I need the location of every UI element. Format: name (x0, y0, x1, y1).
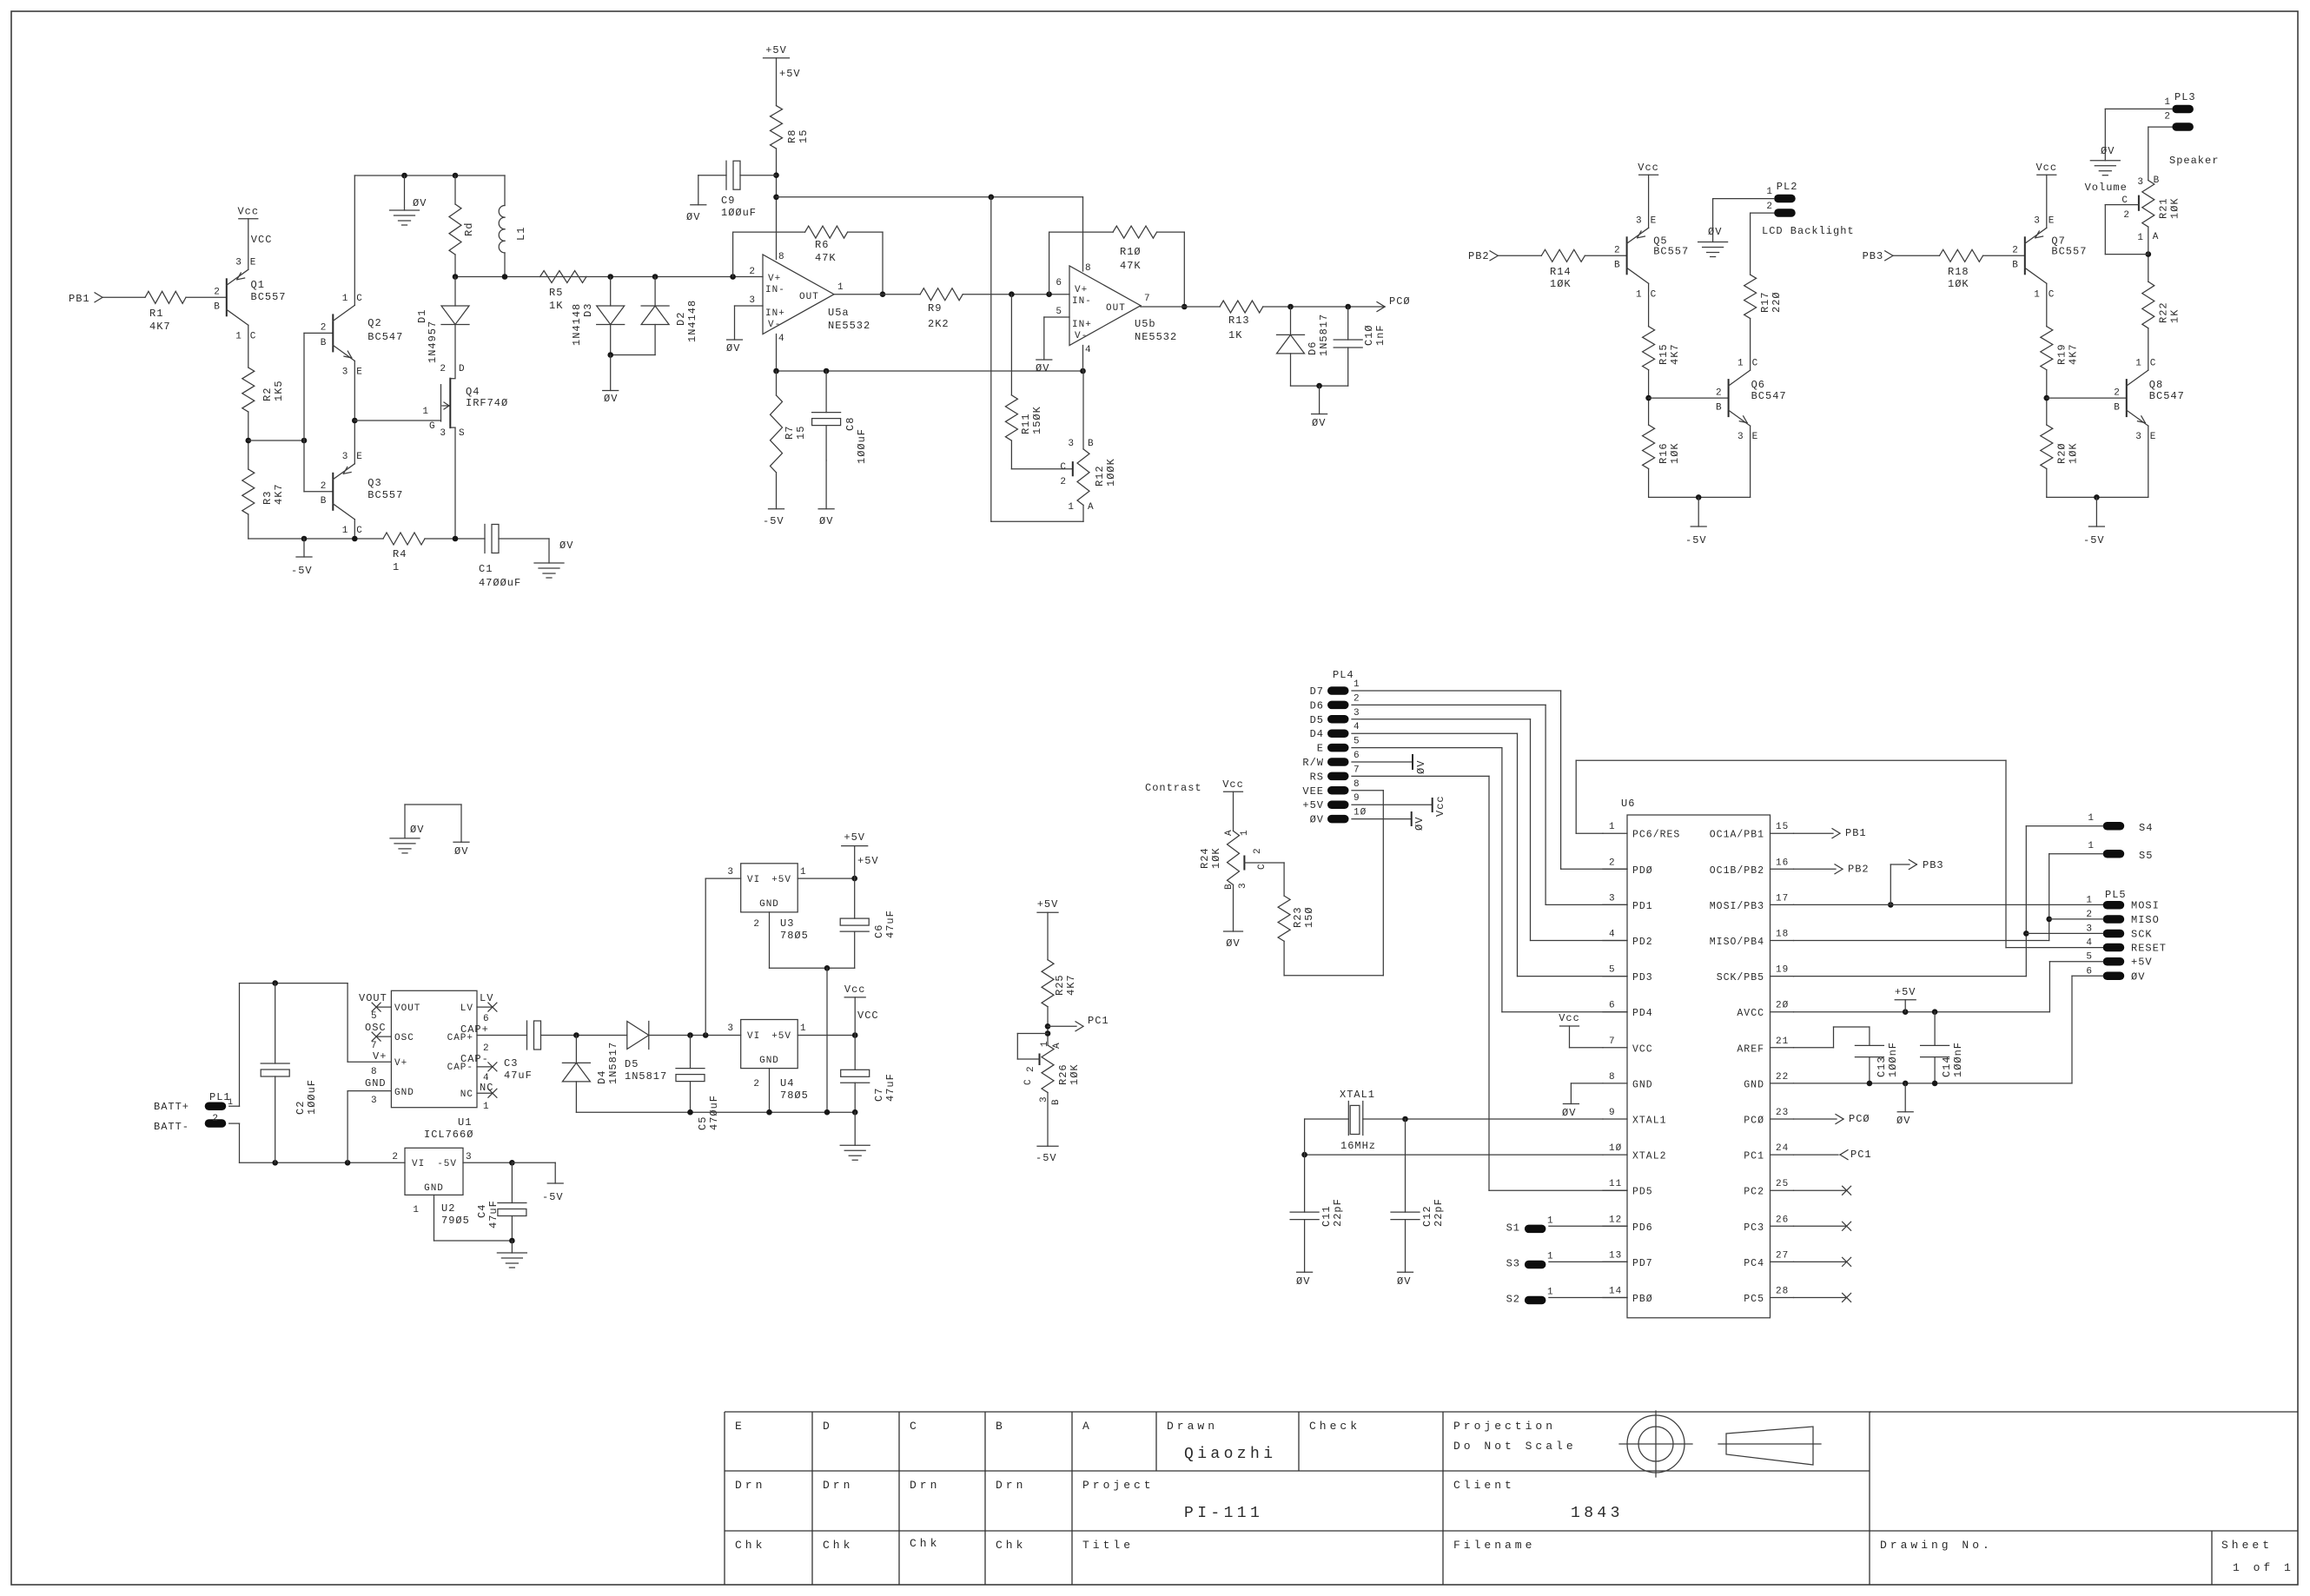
svg-text:D4: D4 (1310, 728, 1324, 740)
svg-text:9: 9 (1354, 793, 1360, 804)
wire D6/C10 bottom (1291, 383, 1348, 389)
svg-text:BC557: BC557 (367, 489, 403, 501)
svg-text:1: 1 (235, 331, 242, 341)
svg-text:V+: V+ (1075, 285, 1088, 295)
svg-text:S3: S3 (1506, 1257, 1520, 1269)
svg-text:PD7: PD7 (1632, 1258, 1653, 1269)
svg-text:2K2: 2K2 (928, 318, 950, 330)
transistor Q8 (2114, 359, 2185, 443)
resistor R8 (771, 106, 811, 149)
svg-text:GND: GND (365, 1077, 387, 1089)
svg-text:U4: U4 (780, 1077, 794, 1089)
svg-text:D5: D5 (625, 1058, 639, 1070)
svg-text:PL3: PL3 (2174, 91, 2196, 103)
svg-text:MISO/PB4: MISO/PB4 (1710, 937, 1764, 948)
svg-text:S: S (459, 428, 466, 439)
wire R26 to -5V (1036, 1093, 1058, 1165)
svg-text:D4: D4 (596, 1070, 608, 1084)
wire Q3 collector (354, 520, 355, 539)
svg-text:3: 3 (1068, 439, 1075, 449)
capacitor C5 (676, 1036, 720, 1131)
svg-text:R22: R22 (2157, 301, 2169, 323)
resistor R5 (540, 271, 586, 313)
wire U5a pin4 (776, 334, 778, 372)
svg-text:Sheet: Sheet (2221, 1539, 2273, 1552)
svg-text:RS: RS (1310, 771, 1324, 783)
svg-text:R19: R19 (2055, 343, 2068, 365)
svg-text:22: 22 (1776, 1072, 1789, 1083)
resistor Rd (449, 175, 475, 277)
svg-text:OSC: OSC (365, 1022, 387, 1034)
svg-text:2: 2 (1026, 1065, 1036, 1072)
svg-text:2: 2 (2164, 112, 2171, 123)
potentiometer R12 (1060, 371, 1117, 513)
svg-text:-5V: -5V (437, 1159, 457, 1169)
svg-text:1ØØK: 1ØØK (1105, 458, 1117, 487)
supply bottom rail (576, 1109, 857, 1116)
svg-text:Qiaozhi: Qiaozhi (1184, 1446, 1276, 1463)
svg-text:B: B (2012, 261, 2019, 271)
svg-text:U5a: U5a (828, 307, 850, 319)
net label PB1 input flag (69, 293, 103, 305)
svg-text:+5V: +5V (857, 855, 879, 867)
svg-text:8: 8 (1085, 263, 1092, 274)
wire R21 wiper loop (2105, 205, 2148, 255)
svg-text:ØV: ØV (454, 845, 468, 858)
svg-text:PC2: PC2 (1744, 1187, 1764, 1198)
0V terminal below D3 (603, 355, 619, 406)
svg-text:C14: C14 (1941, 1056, 1953, 1077)
svg-text:A: A (1088, 502, 1095, 513)
svg-text:3: 3 (727, 1023, 734, 1034)
0V terminal U5b pin5 (1036, 360, 1052, 374)
svg-text:1ØK: 1ØK (1069, 1063, 1081, 1085)
title block Project cell (1082, 1479, 1263, 1522)
svg-text:B: B (321, 338, 328, 348)
power +5V at U3 (842, 831, 879, 878)
svg-text:PD5: PD5 (1632, 1187, 1653, 1198)
svg-text:Vcc: Vcc (2035, 162, 2057, 174)
wire PL5 0V to GND net (1935, 976, 2103, 1083)
svg-text:2: 2 (321, 481, 328, 492)
svg-text:XTAL1: XTAL1 (1632, 1116, 1667, 1127)
wire PL2 pin1 to ground (1713, 199, 1775, 242)
svg-text:ØV: ØV (1310, 814, 1324, 826)
svg-text:XTAL1: XTAL1 (1340, 1089, 1375, 1101)
svg-text:R/W: R/W (1302, 757, 1324, 769)
V- rail (773, 368, 1086, 374)
svg-text:1N5817: 1N5817 (1318, 314, 1330, 356)
ground below C7 (840, 1112, 870, 1160)
svg-text:B: B (1614, 261, 1621, 271)
0V below C12 (1397, 1272, 1413, 1288)
svg-text:IN-: IN- (1072, 296, 1092, 307)
svg-text:PD3: PD3 (1632, 972, 1653, 983)
svg-text:22Ø: 22Ø (1771, 291, 1783, 313)
svg-text:2: 2 (1609, 858, 1616, 868)
svg-text:R5: R5 (549, 287, 563, 299)
wire R21 top to PL3 pin2 (2148, 127, 2173, 180)
svg-text:B: B (1716, 403, 1723, 414)
svg-text:AREF: AREF (1737, 1043, 1764, 1055)
wire R11 to R12 wiper (1011, 440, 1072, 469)
svg-text:B: B (2154, 175, 2161, 186)
no-connect pin25 (1794, 1186, 1851, 1195)
svg-text:2: 2 (2114, 387, 2121, 398)
label BATT- (154, 1121, 189, 1133)
wire MISO pad (2049, 918, 2103, 920)
svg-text:4K7: 4K7 (1669, 343, 1681, 365)
0V terminal below D6/C10 (1312, 386, 1327, 429)
svg-text:1ØK: 1ØK (1210, 847, 1222, 869)
power Vcc at Q1 emitter (237, 206, 272, 270)
svg-text:ØV: ØV (686, 211, 700, 223)
svg-text:8: 8 (778, 252, 785, 262)
transistor Q7 (2012, 216, 2087, 301)
svg-text:R18: R18 (1948, 266, 1969, 278)
svg-text:GND: GND (759, 1056, 779, 1066)
wire pin18 MISO net (1794, 854, 2053, 941)
title block Sheet cell (2221, 1539, 2294, 1574)
svg-text:BC557: BC557 (2051, 245, 2087, 257)
svg-text:C3: C3 (504, 1057, 518, 1070)
svg-text:Vcc: Vcc (1222, 778, 1244, 791)
svg-text:+5V: +5V (1037, 898, 1059, 911)
svg-text:GND: GND (759, 899, 779, 910)
svg-text:C: C (356, 526, 363, 536)
svg-text:2: 2 (214, 288, 221, 298)
svg-text:3: 3 (440, 428, 447, 439)
projection symbol cone (1718, 1427, 1821, 1465)
ground 0V at C1 (534, 539, 573, 578)
svg-text:Volume: Volume (2085, 182, 2128, 194)
svg-text:SCK/PB5: SCK/PB5 (1717, 972, 1764, 983)
svg-text:19: 19 (1776, 965, 1789, 976)
wires PL4 data lines to U6 (1352, 691, 1627, 1012)
svg-text:ØV: ØV (413, 197, 427, 209)
svg-text:+5V: +5V (1302, 799, 1324, 811)
wire C3 to D5 (541, 1032, 627, 1038)
svg-text:1ØØuF: 1ØØuF (306, 1079, 318, 1115)
svg-text:C7: C7 (873, 1088, 885, 1102)
svg-text:22pF: 22pF (1332, 1198, 1344, 1227)
svg-text:E: E (2049, 216, 2055, 227)
wire U4 GND (769, 1069, 771, 1113)
svg-text:-5V: -5V (2083, 534, 2105, 546)
svg-text:PC4: PC4 (1744, 1258, 1764, 1269)
svg-text:V+: V+ (394, 1058, 407, 1069)
svg-text:R24: R24 (1199, 847, 1211, 869)
svg-text:1: 1 (2164, 97, 2171, 108)
svg-text:11: 11 (1609, 1179, 1622, 1189)
svg-text:S5: S5 (2139, 850, 2153, 862)
resistor R11 (1005, 395, 1043, 440)
net flag PB1 at pin15 (1794, 827, 1867, 839)
svg-text:GND: GND (1632, 1079, 1653, 1090)
svg-text:1: 1 (800, 1023, 807, 1034)
wire GND pin22 (1794, 1081, 1938, 1087)
svg-text:47uF: 47uF (884, 910, 897, 938)
svg-text:-5V: -5V (763, 515, 784, 527)
svg-text:R14: R14 (1550, 266, 1572, 278)
svg-text:1K: 1K (2168, 309, 2181, 323)
svg-text:R11: R11 (1020, 413, 1032, 434)
diode D2 (641, 277, 698, 355)
ground 0V at PL2 (1698, 226, 1728, 257)
svg-text:1: 1 (1068, 502, 1075, 513)
svg-text:PB3: PB3 (1863, 250, 1884, 262)
svg-text:18: 18 (1776, 930, 1789, 940)
feedback wire to R10 (1049, 232, 1114, 295)
svg-text:ØV: ØV (410, 824, 424, 836)
svg-text:6: 6 (2086, 966, 2093, 977)
U1 pin CAP+ (447, 1023, 490, 1054)
svg-text:2: 2 (1060, 477, 1067, 487)
svg-text:12: 12 (1609, 1215, 1622, 1225)
power +5V at R8 (764, 44, 801, 106)
svg-text:S2: S2 (1506, 1294, 1520, 1306)
svg-text:V-: V- (1075, 331, 1088, 341)
svg-text:B: B (214, 302, 221, 313)
svg-text:C12: C12 (1421, 1205, 1433, 1227)
net label PB2 input flag (1468, 250, 1498, 262)
svg-text:1843: 1843 (1571, 1505, 1624, 1522)
no-connect pin26 (1794, 1222, 1851, 1230)
svg-text:Check: Check (1309, 1420, 1360, 1433)
svg-text:1: 1 (1636, 289, 1643, 300)
svg-text:RESET: RESET (2131, 943, 2167, 955)
svg-text:R4: R4 (393, 548, 407, 560)
svg-text:-5V: -5V (542, 1191, 564, 1203)
svg-text:8: 8 (1354, 779, 1360, 790)
svg-text:2: 2 (1716, 387, 1723, 398)
resistor R17 (1744, 275, 1784, 318)
svg-text:U5b: U5b (1135, 318, 1156, 330)
op-amp U5b (1056, 263, 1177, 355)
wire BATT+ to top rail (229, 980, 347, 1106)
svg-text:1: 1 (422, 407, 429, 417)
svg-text:Filename: Filename (1453, 1539, 1535, 1552)
svg-text:D5: D5 (1310, 714, 1324, 726)
svg-text:C13: C13 (1876, 1056, 1888, 1077)
svg-text:1: 1 (393, 561, 400, 573)
title block revision letters (735, 1420, 1093, 1433)
svg-text:S1: S1 (1506, 1222, 1520, 1234)
svg-text:47uF: 47uF (504, 1070, 533, 1082)
power Vcc at U6 pin7 (1559, 1012, 1603, 1048)
svg-text:21: 21 (1776, 1036, 1789, 1047)
svg-text:B: B (996, 1420, 1006, 1433)
svg-text:PC1: PC1 (1850, 1149, 1872, 1161)
svg-text:5: 5 (1056, 307, 1062, 317)
svg-text:3: 3 (1238, 882, 1248, 889)
svg-text:1: 1 (1547, 1288, 1554, 1298)
power Vcc at R24 (1222, 778, 1244, 831)
svg-text:R1Ø: R1Ø (1120, 246, 1142, 258)
wire PL3 pin1 to ground (2105, 109, 2172, 160)
svg-text:2: 2 (1253, 847, 1263, 854)
svg-text:E: E (2150, 432, 2157, 442)
R11 tap wire (1010, 295, 1012, 395)
wire R17 to PL2 pin2 (1751, 213, 1775, 275)
wire AVCC pin20 (1794, 1009, 1938, 1015)
svg-text:C: C (1060, 462, 1067, 473)
svg-text:1: 1 (800, 867, 807, 877)
svg-text:VOUT: VOUT (359, 992, 387, 1004)
svg-text:1K: 1K (549, 300, 563, 312)
svg-text:Chk: Chk (735, 1539, 765, 1552)
svg-text:C9: C9 (721, 195, 735, 207)
svg-text:Drn: Drn (996, 1479, 1026, 1492)
svg-text:1: 1 (413, 1205, 420, 1215)
no-connect pin28 (1794, 1294, 1851, 1302)
svg-text:B: B (1088, 439, 1095, 449)
svg-text:R17: R17 (1759, 291, 1771, 313)
svg-text:C4: C4 (476, 1204, 488, 1218)
svg-text:MOSI/PB3: MOSI/PB3 (1710, 901, 1764, 912)
potentiometer R26 (1023, 1040, 1081, 1105)
svg-text:R21: R21 (2157, 197, 2169, 219)
wire R6 to output node (848, 232, 886, 297)
svg-text:Rd: Rd (463, 222, 475, 236)
svg-text:ICL766Ø: ICL766Ø (424, 1129, 473, 1141)
svg-text:47uF: 47uF (487, 1200, 500, 1228)
transistor Q1 (214, 258, 286, 342)
svg-text:PD1: PD1 (1632, 901, 1653, 912)
wire XTAL1 pin9 (1363, 1116, 1603, 1122)
wire PB2 to R14 (1498, 255, 1541, 256)
svg-text:PL4: PL4 (1333, 669, 1354, 681)
svg-text:3: 3 (342, 367, 349, 377)
wire U3 input drop (705, 878, 741, 1035)
svg-text:-5V: -5V (1685, 534, 1707, 546)
svg-text:PCØ: PCØ (1849, 1113, 1870, 1125)
wire R20 to -5V rail (2046, 469, 2048, 498)
svg-text:3: 3 (466, 1152, 473, 1162)
svg-text:4: 4 (778, 334, 785, 344)
svg-text:PB1: PB1 (69, 293, 90, 305)
svg-text:R7: R7 (784, 426, 796, 440)
svg-text:ØV: ØV (1312, 417, 1326, 429)
svg-text:IN-: IN- (765, 285, 785, 295)
feedback wire to R6 (733, 232, 805, 276)
title block Drn row (735, 1479, 1026, 1492)
svg-text:VI: VI (412, 1159, 425, 1169)
svg-text:NC: NC (460, 1089, 473, 1100)
svg-text:+5V: +5V (771, 875, 791, 885)
svg-text:V+: V+ (768, 274, 781, 284)
svg-text:4K7: 4K7 (2067, 343, 2079, 365)
svg-text:1: 1 (1737, 359, 1744, 369)
svg-text:23: 23 (1776, 1108, 1789, 1118)
svg-text:2: 2 (1766, 202, 1773, 212)
svg-text:Client: Client (1453, 1479, 1515, 1492)
power +5V at AVCC (1895, 986, 1916, 1012)
wire Q2 collector to top rail (354, 175, 355, 305)
svg-text:3: 3 (1636, 216, 1643, 227)
svg-text:6: 6 (1609, 1001, 1616, 1011)
transistor Q5 (1614, 216, 1689, 301)
resistor R14 (1541, 249, 1585, 290)
svg-text:4: 4 (1085, 345, 1092, 355)
top rail 0V wire (354, 173, 505, 179)
svg-text:C: C (1257, 863, 1268, 870)
svg-text:Drawing No.: Drawing No. (1880, 1539, 1993, 1552)
0V at U6 pin8 GND (1562, 1083, 1603, 1119)
diode D1 (416, 277, 469, 378)
svg-text:R3: R3 (261, 491, 274, 505)
capacitor C14 (1921, 1012, 1965, 1083)
label Speaker (2169, 155, 2219, 167)
svg-text:Vcc: Vcc (1434, 795, 1446, 817)
wire Q5 collector to R15 (1648, 283, 1650, 326)
svg-text:ØV: ØV (2101, 145, 2115, 157)
svg-text:14: 14 (1609, 1287, 1622, 1297)
svg-text:Vcc: Vcc (844, 983, 866, 996)
svg-text:LV: LV (460, 1003, 473, 1014)
svg-text:Drn: Drn (910, 1479, 940, 1492)
wire R12 bottom to +5V drop (991, 197, 1083, 522)
ground below C4 (497, 1241, 526, 1268)
svg-text:R2: R2 (261, 387, 274, 401)
power -5V stub Q7 section (2083, 497, 2105, 546)
wire U5b pin5 input (1044, 317, 1069, 360)
wire pin19 SCK net (1794, 826, 2029, 977)
svg-text:R6: R6 (815, 239, 829, 251)
wire PB1 to R1 (103, 296, 145, 298)
0V terminal U5a pin3 (726, 340, 743, 354)
svg-text:ØV: ØV (1226, 937, 1240, 950)
svg-text:VCC: VCC (251, 234, 273, 246)
svg-text:PBØ: PBØ (1632, 1294, 1653, 1305)
wire R2 to R3 node (246, 412, 252, 469)
svg-text:ØV: ØV (1413, 817, 1426, 831)
svg-text:BC547: BC547 (367, 331, 403, 343)
svg-text:Chk: Chk (910, 1537, 940, 1550)
wire R24 to 0V (1224, 884, 1243, 950)
svg-text:7: 7 (1354, 765, 1360, 775)
wire node to Q8 base (2047, 397, 2127, 399)
svg-text:8: 8 (371, 1067, 378, 1077)
wire R10 to output (1157, 232, 1188, 309)
U1 pin NC (460, 1082, 497, 1112)
wire XTAL2 pin10 (1301, 1152, 1603, 1158)
resistor R9 (920, 288, 963, 330)
svg-text:1: 1 (1609, 822, 1616, 832)
resistor R2 (242, 368, 285, 412)
svg-text:PB2: PB2 (1468, 250, 1490, 262)
svg-text:BC547: BC547 (1751, 390, 1787, 402)
svg-text:PCØ: PCØ (1389, 295, 1411, 308)
svg-text:PL5: PL5 (2105, 889, 2127, 901)
svg-text:6: 6 (1354, 751, 1360, 761)
svg-text:Projection: Projection (1453, 1420, 1556, 1433)
inductor L1 (499, 175, 527, 277)
resistor R3 (242, 469, 285, 514)
svg-text:Speaker: Speaker (2169, 155, 2219, 167)
svg-text:1: 1 (342, 294, 349, 304)
svg-text:+5V: +5V (771, 1031, 791, 1042)
wire PB3 to R18 (1893, 255, 1940, 256)
svg-text:Title: Title (1082, 1539, 1134, 1552)
wire U2 GND to C4 node (434, 1195, 515, 1243)
svg-text:1K: 1K (1228, 329, 1242, 341)
svg-text:2Ø: 2Ø (1776, 1001, 1789, 1011)
wire Q8 collector to R22 (2148, 328, 2149, 370)
svg-text:PC1: PC1 (1744, 1151, 1764, 1162)
transistor Q3 (321, 452, 404, 536)
svg-text:47uF: 47uF (884, 1073, 897, 1102)
